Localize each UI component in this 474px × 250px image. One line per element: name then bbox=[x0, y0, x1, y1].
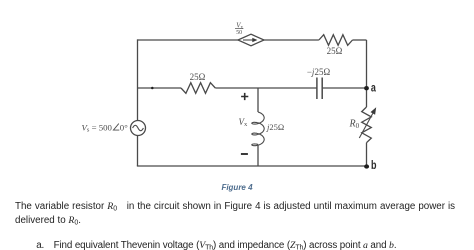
wire top-right to corner bbox=[353, 39, 367, 41]
capacitor -j25ohm plates bbox=[317, 78, 322, 100]
wire right vertical lower bbox=[366, 143, 368, 167]
caption Figure 4 bbox=[0, 184, 474, 192]
label plus Vx bbox=[241, 93, 248, 100]
wire right vertical upper bbox=[366, 40, 368, 107]
wire inductor branch bottom bbox=[257, 144, 259, 166]
wire middle to capacitor bbox=[215, 87, 317, 89]
label minus Vx bbox=[241, 153, 248, 155]
svg-text:R0: R0 bbox=[349, 119, 360, 131]
svg-text:a: a bbox=[371, 81, 376, 95]
inductor j25ohm coil bbox=[252, 112, 264, 146]
angle symbol bbox=[113, 124, 119, 131]
dependent source U1 diamond bbox=[238, 34, 264, 46]
wire bottom bbox=[137, 165, 367, 167]
voltage source Vs circle bbox=[131, 121, 146, 136]
resistor 25ohm top-right zigzag bbox=[319, 35, 353, 46]
node a dot bbox=[364, 86, 369, 90]
body text line 2 bbox=[15, 216, 81, 226]
svg-text:50: 50 bbox=[236, 30, 242, 36]
svg-text:25Ω: 25Ω bbox=[327, 46, 343, 56]
wire capacitor to node a bbox=[322, 87, 366, 89]
body text item a bbox=[36, 241, 396, 250]
resistor 25ohm middle zigzag bbox=[181, 83, 215, 94]
svg-text:−j25Ω: −j25Ω bbox=[307, 67, 331, 77]
svg-text:Vx: Vx bbox=[239, 117, 249, 128]
svg-text:0°: 0° bbox=[120, 122, 128, 132]
svg-text:j25Ω: j25Ω bbox=[266, 122, 284, 132]
svg-text:25Ω: 25Ω bbox=[190, 72, 206, 82]
svg-text:b: b bbox=[371, 159, 377, 173]
body text line 1 bbox=[15, 202, 455, 212]
variable resistor arrow bbox=[359, 113, 373, 138]
node b dot bbox=[364, 164, 369, 168]
label Vx/50 bar bbox=[235, 28, 243, 30]
wire top bbox=[138, 39, 319, 41]
dependent source arrow bbox=[243, 39, 253, 41]
voltage source sine bbox=[133, 125, 144, 130]
node junction dot left bbox=[151, 87, 154, 90]
wire inductor branch top bbox=[257, 88, 259, 112]
wire middle left bbox=[138, 87, 182, 89]
variable resistor R0 zigzag bbox=[362, 107, 372, 143]
wire left vertical bbox=[137, 39, 139, 166]
svg-text:Vs = 500: Vs = 500 bbox=[82, 122, 113, 133]
